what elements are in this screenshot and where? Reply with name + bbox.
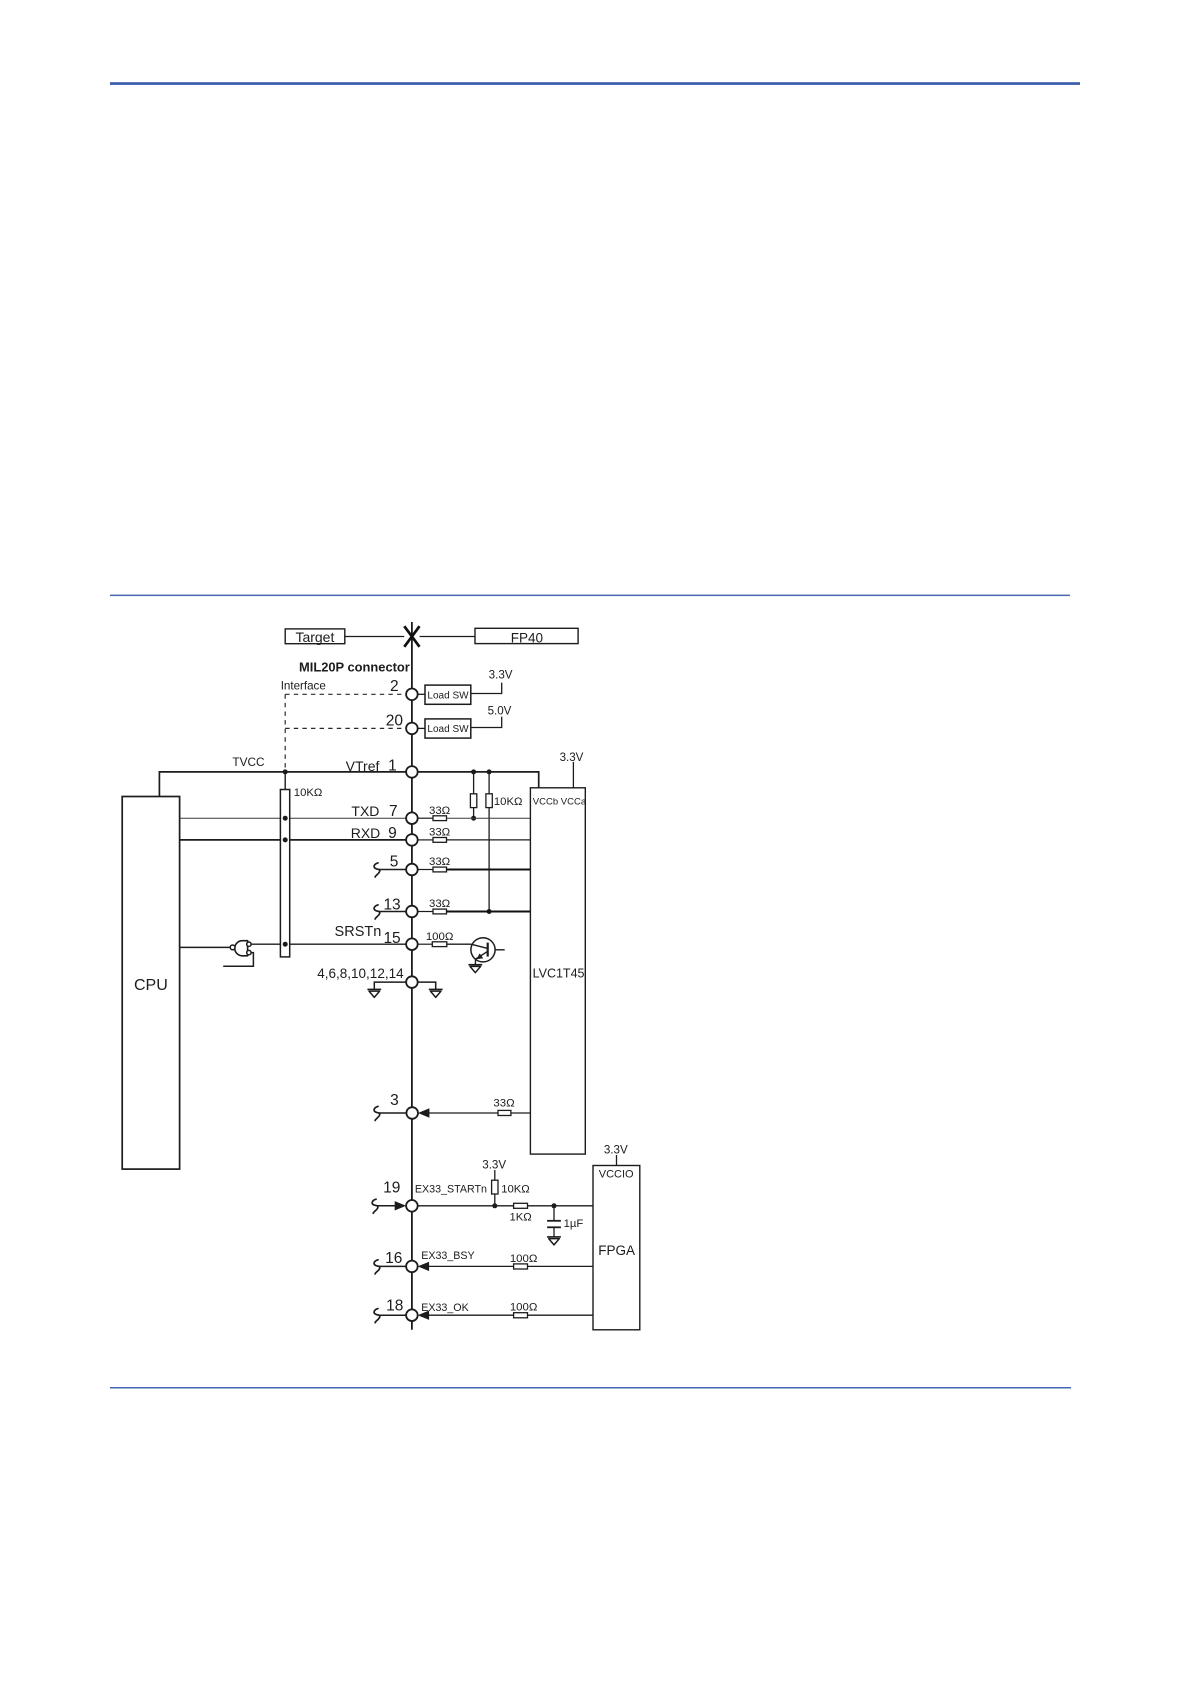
transistor Q1 xyxy=(471,938,505,965)
junction pin13 R-up2 xyxy=(487,909,492,914)
svg-text:EX33_STARTn: EX33_STARTn xyxy=(415,1184,487,1196)
wire: Load SW 2 to 5.0V xyxy=(471,717,502,728)
svg-text:LVC1T45: LVC1T45 xyxy=(533,966,585,980)
CPU block xyxy=(122,797,179,1170)
svg-text:3.3V: 3.3V xyxy=(604,1144,628,1157)
pull-up resistor R-up2 10K (pin13) xyxy=(486,772,492,912)
svg-text:5: 5 xyxy=(390,853,399,870)
isolation X mark xyxy=(404,626,419,647)
svg-text:18: 18 xyxy=(386,1297,403,1314)
node pin 3 xyxy=(406,1107,418,1119)
svg-text:FP40: FP40 xyxy=(511,630,543,645)
svg-text:Interface: Interface xyxy=(281,679,326,692)
node pin 13 xyxy=(406,906,418,918)
svg-text:15: 15 xyxy=(383,930,400,947)
svg-text:16: 16 xyxy=(385,1250,402,1267)
node pin 19 xyxy=(406,1200,418,1212)
arrow into pin 18 xyxy=(418,1311,429,1320)
wire: pin2 to Load SW xyxy=(418,693,426,695)
svg-text:9: 9 xyxy=(388,825,397,842)
IC U3 FPGA xyxy=(593,1166,640,1330)
wire: squiggle to pin 5 xyxy=(379,869,406,871)
wire: main connector bus (vertical) xyxy=(411,622,413,1330)
junction pin19 cap xyxy=(552,1203,557,1208)
node pin 16 xyxy=(406,1261,418,1273)
svg-text:TXD: TXD xyxy=(351,803,379,819)
svg-text:EX33_BSY: EX33_BSY xyxy=(421,1250,474,1262)
svg-text:10KΩ: 10KΩ xyxy=(294,787,323,799)
arrow into pin 19 xyxy=(395,1201,406,1210)
svg-text:VCCIO: VCCIO xyxy=(599,1168,634,1180)
wire: Target to isolation X xyxy=(345,636,404,638)
ground (right) xyxy=(429,989,443,997)
pull-up resistor 10KΩ (pin19) xyxy=(492,1170,498,1206)
svg-text:FPGA: FPGA xyxy=(598,1243,635,1258)
top blue rule xyxy=(110,82,1080,85)
wire: VTref rail right segment to VCCb xyxy=(418,772,539,788)
svg-text:MIL20P connector: MIL20P connector xyxy=(299,659,410,674)
svg-text:2: 2 xyxy=(390,678,399,695)
resistor 100Ω (pin16) xyxy=(428,1253,593,1269)
wire: squiggle to pin 18 xyxy=(379,1314,406,1316)
FP40 block xyxy=(475,628,578,645)
svg-text:1KΩ: 1KΩ xyxy=(509,1212,531,1224)
svg-text:Load SW: Load SW xyxy=(427,724,469,735)
svg-text:10KΩ: 10KΩ xyxy=(494,796,523,808)
resistor 33Ω (pin5) xyxy=(418,856,531,872)
svg-text:33Ω: 33Ω xyxy=(493,1097,515,1109)
svg-text:3: 3 xyxy=(390,1092,399,1109)
wire: gate lower input L-stub xyxy=(223,953,253,967)
node pin 1 xyxy=(406,766,418,778)
svg-text:10KΩ: 10KΩ xyxy=(501,1183,530,1195)
svg-text:RXD: RXD xyxy=(351,825,381,841)
Target block xyxy=(285,629,345,645)
svg-text:100Ω: 100Ω xyxy=(510,1253,538,1265)
middle blue rule xyxy=(110,595,1070,597)
ground (left) xyxy=(367,989,381,997)
junction VTref R-up2 xyxy=(487,769,492,774)
svg-text:100Ω: 100Ω xyxy=(510,1302,538,1314)
svg-text:TVCC: TVCC xyxy=(232,755,265,769)
wire: SRSTn gate top input to pin 15 xyxy=(251,943,407,945)
wire: dashed vertical interface drop xyxy=(284,694,286,772)
junction bar SRSTn xyxy=(283,942,288,947)
wire: Load SW to 3.3V xyxy=(471,683,502,694)
arrow into pin 3 xyxy=(418,1108,429,1117)
pull-up resistor R-up1 10K (TXD) xyxy=(470,772,476,818)
resistor pack 10KΩ bar xyxy=(280,790,289,957)
resistor 1KΩ (pin19) xyxy=(418,1203,594,1223)
svg-text:CPU: CPU xyxy=(134,977,168,994)
wire: squiggle to arrow pin 19 xyxy=(377,1205,396,1207)
svg-text:33Ω: 33Ω xyxy=(429,827,451,839)
break squiggle pin 18 xyxy=(374,1309,380,1323)
node pin 18 xyxy=(406,1309,418,1321)
wire: RXD row xyxy=(180,839,407,841)
svg-text:SRSTn: SRSTn xyxy=(335,924,382,940)
svg-text:20: 20 xyxy=(386,713,404,730)
wire: dashed interface to pin 2 xyxy=(285,693,406,695)
ground (capacitor) xyxy=(547,1237,561,1245)
wire: gnd pins right xyxy=(418,982,436,989)
svg-text:7: 7 xyxy=(389,803,398,820)
junction VTref R-up1 xyxy=(471,769,476,774)
Load SW block (5.0V) xyxy=(425,719,471,738)
wire: squiggle to pin 13 xyxy=(379,911,406,913)
wire: dashed interface to pin 20 xyxy=(285,727,406,729)
gate U2 (NAND, left-facing, inverted inputs) xyxy=(230,941,251,956)
junction TXD R-up1 xyxy=(471,816,476,821)
wire: gnd pins left xyxy=(374,982,406,989)
wire: squiggle to pin 3 xyxy=(379,1112,406,1114)
resistor 33Ω (TXD) xyxy=(418,805,531,821)
svg-text:4,6,8,10,12,14: 4,6,8,10,12,14 xyxy=(317,966,404,981)
svg-text:VCCb VCCa: VCCb VCCa xyxy=(533,796,587,807)
junction bar TXD xyxy=(283,816,288,821)
svg-text:33Ω: 33Ω xyxy=(429,856,451,868)
svg-text:1µF: 1µF xyxy=(564,1218,584,1230)
svg-text:33Ω: 33Ω xyxy=(429,805,451,817)
svg-text:3.3V: 3.3V xyxy=(489,669,513,682)
resistor 100Ω (SRSTn) xyxy=(418,931,472,947)
arrow into pin 16 xyxy=(418,1262,429,1271)
break squiggle pin 16 xyxy=(374,1260,380,1274)
break squiggle pin 5 xyxy=(374,863,380,877)
wire: 3.3V to VCCIO xyxy=(616,1155,618,1166)
resistor pack 10K bar drop from VTref xyxy=(284,772,286,790)
node pin 5 xyxy=(406,864,418,876)
resistor 100Ω (pin18) xyxy=(428,1302,593,1318)
resistor 33Ω (pin13) xyxy=(418,898,531,914)
break squiggle pin 13 xyxy=(374,905,380,919)
svg-text:5.0V: 5.0V xyxy=(488,705,512,718)
node pins 4,6,8,10,12,14 xyxy=(406,976,418,988)
svg-text:19: 19 xyxy=(383,1179,400,1196)
wire: TXD row xyxy=(180,817,407,819)
Load SW block (3.3V) xyxy=(425,685,471,704)
IC U1 LVC1T45 xyxy=(530,788,586,1154)
svg-text:3.3V: 3.3V xyxy=(482,1159,506,1172)
svg-text:13: 13 xyxy=(383,897,400,914)
junction on VTref at bar xyxy=(283,769,288,774)
wire: squiggle to pin 16 xyxy=(379,1265,406,1267)
ground (transistor emitter) xyxy=(468,965,482,973)
break squiggle pin 19 xyxy=(372,1199,378,1213)
svg-text:Target: Target xyxy=(295,629,334,645)
node pin 2 xyxy=(406,689,418,701)
svg-text:3.3V: 3.3V xyxy=(560,751,584,764)
node pin 7 xyxy=(406,812,418,824)
node pin 15 xyxy=(406,938,418,950)
junction bar RXD xyxy=(283,837,288,842)
wire: VTref rail left segment with drop to CPU xyxy=(159,772,406,797)
node pin 9 xyxy=(406,834,418,846)
bottom blue rule xyxy=(110,1387,1071,1389)
capacitor C1 1µF xyxy=(547,1206,561,1237)
svg-text:100Ω: 100Ω xyxy=(426,931,454,943)
svg-text:33Ω: 33Ω xyxy=(429,898,451,910)
svg-text:Load SW: Load SW xyxy=(427,690,469,701)
break squiggle pin 3 xyxy=(374,1106,380,1120)
junction pin19 pull-up xyxy=(492,1203,497,1208)
wire: X to FP40 xyxy=(420,636,475,638)
wire: pin20 to Load SW 2 xyxy=(418,727,426,729)
resistor 33Ω (pin3) xyxy=(428,1097,530,1115)
node pin 20 xyxy=(406,723,418,735)
resistor 33Ω (RXD) xyxy=(418,827,531,843)
wire: CPU to gate output xyxy=(180,946,231,948)
wire: 3.3V to VCCa xyxy=(572,762,574,788)
